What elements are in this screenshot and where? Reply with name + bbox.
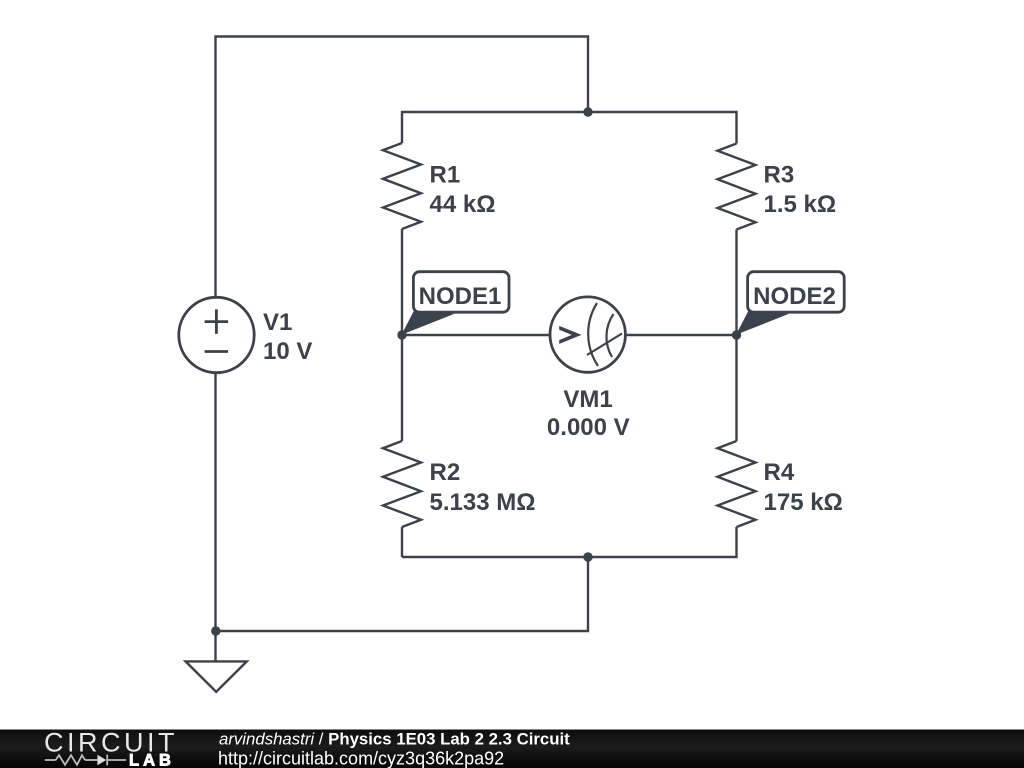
wire middle rail left segment	[402, 334, 550, 336]
wire V1 bottom to ground	[214, 373, 216, 661]
svg-text:10 V: 10 V	[263, 338, 312, 365]
node junction dot top	[583, 107, 592, 116]
svg-text:VM1: VM1	[563, 386, 612, 413]
wire top-left from V1 up and across to top junction	[216, 37, 589, 298]
svg-text:5.133 MΩ: 5.133 MΩ	[430, 489, 536, 516]
svg-text:R4: R4	[764, 459, 795, 486]
svg-text:http://circuitlab.com/cyz3q36k: http://circuitlab.com/cyz3q36k2pa92	[218, 749, 504, 768]
svg-text:NODE2: NODE2	[753, 283, 836, 310]
node dot NODE2	[732, 330, 741, 339]
footer bar	[0, 730, 1024, 768]
svg-text:44 kΩ: 44 kΩ	[430, 191, 496, 218]
svg-text:V1: V1	[263, 309, 292, 336]
wire R1 bottom to NODE1	[401, 229, 403, 335]
svg-text:NODE1: NODE1	[419, 283, 502, 310]
ground	[186, 661, 247, 691]
resistor R2	[383, 441, 421, 527]
CircuitLab logo resistor-diode squiggle	[45, 755, 126, 766]
svg-text:R2: R2	[430, 459, 461, 486]
resistor R3	[718, 144, 756, 230]
voltmeter VM1	[550, 297, 625, 372]
CircuitLab logo diode triangle	[97, 755, 106, 766]
node NODE2 callout	[736, 272, 844, 335]
svg-text:arvindshastri / Physics 1E03 L: arvindshastri / Physics 1E03 Lab 2 2.3 C…	[219, 729, 570, 748]
svg-text:0.000 V: 0.000 V	[547, 414, 630, 441]
wire bottom return to ground run	[216, 557, 589, 631]
wire NODE2 down to R4	[735, 335, 737, 441]
resistor R4	[718, 441, 756, 527]
wire NODE1 down to R2	[401, 335, 403, 441]
node NODE1 callout	[402, 272, 510, 335]
wire bottom rail	[402, 527, 737, 557]
node junction dot ground run	[211, 626, 220, 635]
svg-text:LAB: LAB	[129, 752, 175, 768]
wire R2 bottom to bottom rail	[401, 527, 403, 557]
svg-text:1.5 kΩ: 1.5 kΩ	[764, 191, 837, 218]
resistor R1	[383, 143, 421, 229]
node dot NODE1	[397, 330, 406, 339]
wire R3 bottom to NODE2	[735, 230, 737, 336]
voltage source V1	[179, 297, 254, 372]
wire top rail of bridge	[402, 112, 737, 144]
node junction dot bottom	[583, 552, 592, 561]
svg-text:R1: R1	[430, 162, 461, 189]
wire middle rail right segment	[625, 334, 736, 336]
svg-text:175 kΩ: 175 kΩ	[764, 489, 843, 516]
svg-text:R3: R3	[764, 162, 795, 189]
